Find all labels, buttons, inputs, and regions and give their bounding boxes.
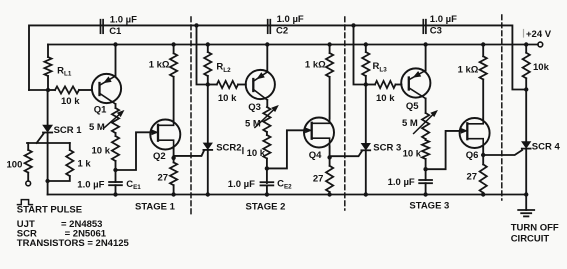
svg-text:10 k: 10 k: [376, 93, 395, 104]
svg-text:1.0 µF: 1.0 µF: [277, 14, 304, 25]
svg-text:1 kΩ: 1 kΩ: [149, 59, 170, 70]
svg-text:Q6: Q6: [466, 150, 479, 161]
svg-text:Q4: Q4: [309, 150, 322, 161]
svg-text:C2: C2: [276, 26, 288, 37]
svg-text:10 k: 10 k: [247, 148, 266, 159]
svg-text:+24 V: +24 V: [526, 29, 552, 40]
svg-text:STAGE 3: STAGE 3: [409, 200, 449, 211]
svg-text:C1: C1: [109, 26, 122, 37]
svg-text:CE2: CE2: [277, 179, 292, 191]
svg-text:Q1: Q1: [94, 105, 107, 116]
svg-text:10 k: 10 k: [61, 96, 80, 107]
svg-text:Q2: Q2: [153, 151, 166, 162]
svg-text:Q5: Q5: [406, 101, 419, 112]
svg-text:1 k: 1 k: [78, 159, 92, 170]
svg-text:RL1: RL1: [57, 66, 72, 78]
svg-text:CIRCUIT: CIRCUIT: [511, 234, 550, 245]
svg-text:STAGE 2: STAGE 2: [246, 202, 286, 213]
svg-text:10 k: 10 k: [218, 93, 237, 104]
svg-text:10 k: 10 k: [403, 148, 422, 159]
svg-text:1.0 µF: 1.0 µF: [430, 14, 457, 25]
svg-text:10 k: 10 k: [92, 146, 111, 157]
svg-text:RL2: RL2: [216, 62, 231, 74]
svg-text:1.0 µF: 1.0 µF: [228, 179, 255, 190]
svg-text:27: 27: [467, 172, 478, 183]
svg-text:SCR 1: SCR 1: [54, 125, 83, 136]
svg-text:SCR2: SCR2: [216, 143, 241, 154]
svg-text:1.0 µF: 1.0 µF: [77, 180, 104, 191]
svg-text:START PULSE: START PULSE: [17, 205, 82, 216]
svg-text:1.0 µF: 1.0 µF: [388, 177, 415, 188]
svg-text:TURN OFF: TURN OFF: [511, 223, 559, 234]
svg-text:SCR 3: SCR 3: [373, 143, 401, 154]
svg-text:1 kΩ: 1 kΩ: [458, 65, 479, 76]
svg-text:27: 27: [158, 172, 169, 183]
svg-text:5 M: 5 M: [402, 118, 418, 129]
svg-text:10k: 10k: [533, 62, 550, 73]
svg-text:5 M: 5 M: [89, 122, 105, 133]
svg-text:SCR 4: SCR 4: [532, 142, 561, 153]
svg-text:5 M: 5 M: [245, 118, 261, 129]
svg-text:STAGE 1: STAGE 1: [135, 202, 176, 213]
svg-text:CE1: CE1: [126, 179, 141, 191]
svg-text:1 kΩ: 1 kΩ: [305, 60, 326, 71]
svg-text:C3: C3: [430, 26, 442, 37]
svg-text:Q3: Q3: [248, 102, 261, 113]
svg-text:RL3: RL3: [373, 61, 388, 73]
svg-text:1.0 µF: 1.0 µF: [110, 15, 137, 26]
svg-text:27: 27: [313, 174, 324, 185]
svg-text:100: 100: [7, 159, 23, 170]
svg-text:TRANSISTORS = 2N4125: TRANSISTORS = 2N4125: [17, 238, 130, 249]
